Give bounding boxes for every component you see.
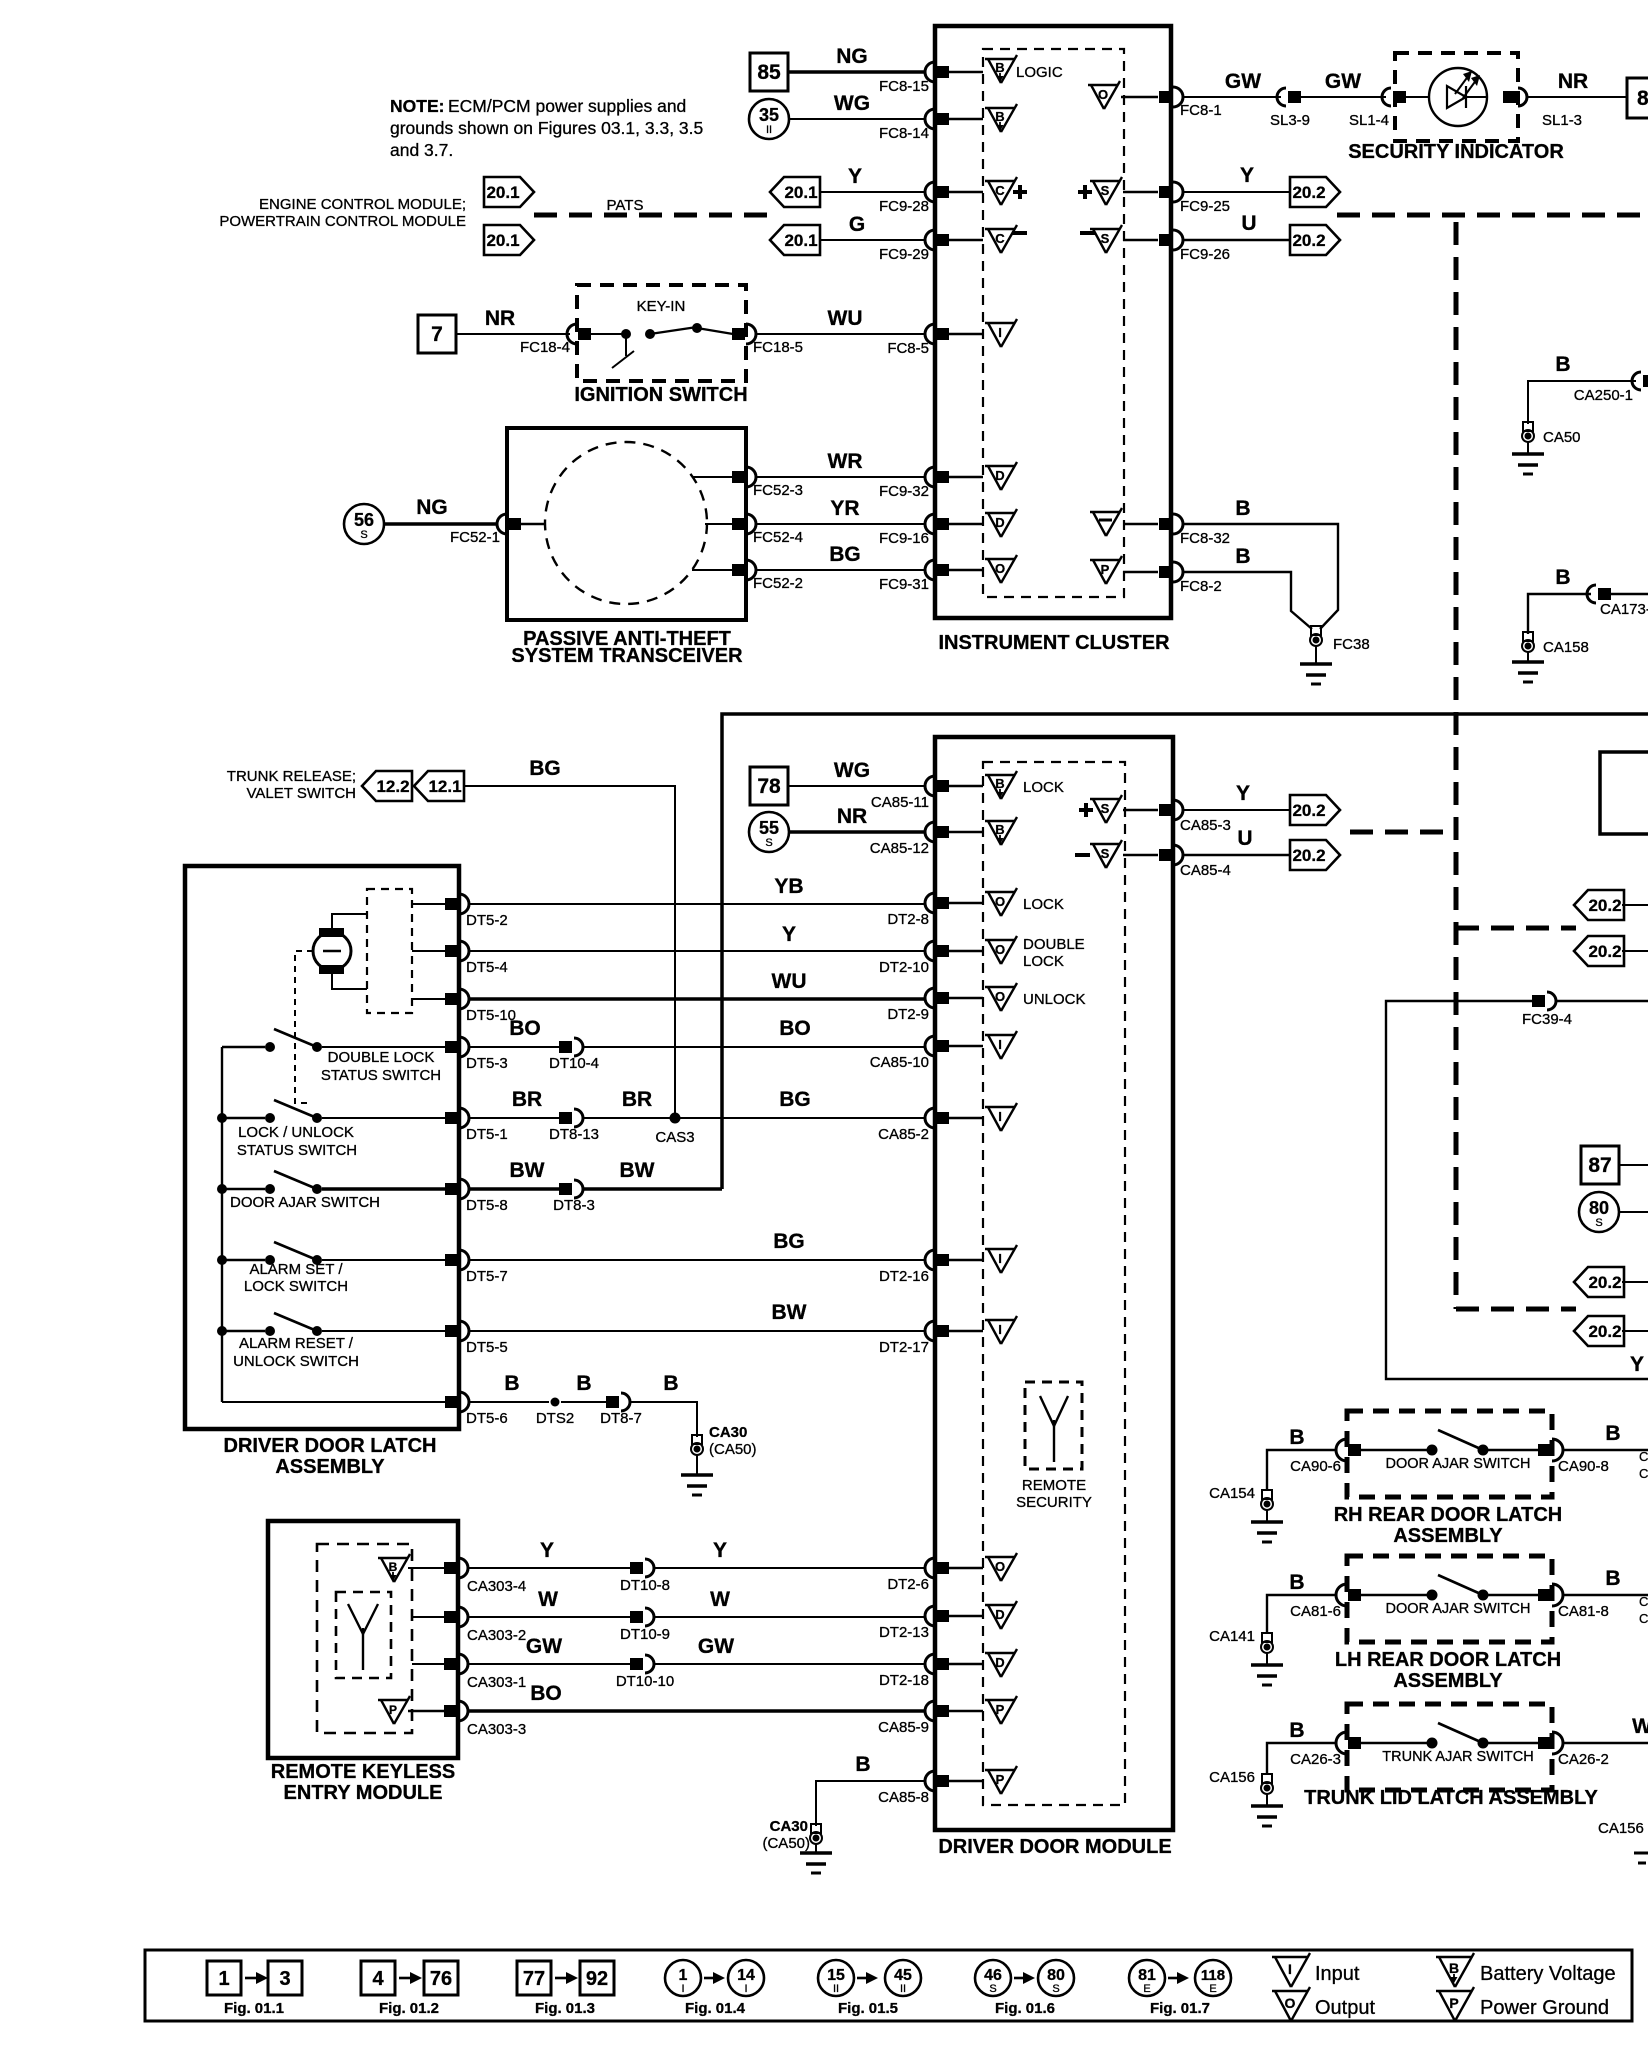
pin FC9-28 — [879, 182, 983, 215]
wire B DT8-7 to CA30 ground — [630, 1372, 697, 1437]
switch DOOR AJAR SWITCH — [1361, 1575, 1538, 1617]
svg-text:C: C — [1639, 1594, 1648, 1609]
label IGNITION SWITCH — [574, 384, 747, 406]
switch TRUNK AJAR SWITCH — [1361, 1723, 1538, 1765]
wire W DT10-9 to DT2-13 — [654, 1588, 926, 1617]
svg-text:CA85-3: CA85-3 — [1180, 817, 1231, 834]
svg-text:CA158: CA158 — [1543, 639, 1589, 656]
svg-text:REMOTE: REMOTE — [1022, 1477, 1086, 1494]
wire BO DT5-3 to DT10-4 — [469, 1017, 560, 1047]
svg-text:Fig. 01.2: Fig. 01.2 — [379, 2000, 439, 2017]
wire BW DT5-8 to DT8-3 — [469, 1159, 560, 1189]
wire WU DT5-10 to DT2-9 — [469, 970, 926, 999]
svg-text:I: I — [998, 325, 1002, 340]
svg-text:S: S — [1101, 183, 1110, 198]
svg-text:P: P — [996, 1702, 1005, 1717]
inline connector DT10-9 — [620, 1608, 670, 1643]
partial connector text at edge (LH) — [1639, 1594, 1648, 1626]
svg-text:DT10-9: DT10-9 — [620, 1626, 670, 1643]
node CAS3 — [655, 1113, 694, 1147]
symbol input triangle (CA85-10) — [985, 1031, 1017, 1059]
svg-text:CA85-8: CA85-8 — [878, 1789, 929, 1806]
svg-text:Y: Y — [848, 165, 862, 188]
svg-text:TRUNK RELEASE;: TRUNK RELEASE; — [227, 768, 356, 785]
DOOR AJAR SWITCH dashed box — [1347, 1556, 1552, 1642]
svg-text:B: B — [1555, 566, 1570, 589]
svg-text:CA85-9: CA85-9 — [878, 1719, 929, 1736]
ground CA141 — [1209, 1628, 1283, 1685]
fig arrow 12.2 — [362, 771, 412, 801]
wire from CA81-8 off page — [1563, 1567, 1648, 1595]
pin CA303-1 — [444, 1654, 526, 1691]
pin DT5-8 — [445, 1179, 508, 1214]
pin FC9-31 — [879, 560, 983, 593]
svg-text:DT2-8: DT2-8 — [887, 911, 929, 928]
dashed branch to bus (lower) — [1456, 1307, 1576, 1312]
wire BW DT8-3 up and across — [583, 1159, 722, 1189]
security indicator dashed box — [1395, 53, 1518, 141]
wire U from CA85-4 to fig 20.2 — [1183, 827, 1290, 855]
svg-text:FC9-29: FC9-29 — [879, 246, 929, 263]
svg-text:W: W — [538, 1588, 558, 1611]
wire YB DT5-2 to DT2-8 — [469, 875, 926, 904]
svg-text:B: B — [576, 1372, 591, 1395]
svg-text:DT2-17: DT2-17 — [879, 1339, 929, 1356]
svg-text:CA85-2: CA85-2 — [878, 1126, 929, 1143]
pin FC8-15 — [879, 62, 983, 95]
svg-text:CA303-1: CA303-1 — [467, 1674, 526, 1691]
symbol battery-voltage triangle (LOGIC) — [985, 55, 1063, 83]
connector box 85 — [750, 53, 788, 91]
svg-text:85: 85 — [1637, 87, 1648, 110]
pin DT5-1 — [445, 1108, 508, 1143]
pin CA85-9 — [878, 1701, 983, 1736]
instrument cluster inner dashed box — [983, 49, 1124, 597]
svg-text:O: O — [995, 989, 1005, 1004]
svg-text:FC38: FC38 — [1333, 636, 1370, 653]
ground CA156 — [1209, 1769, 1283, 1826]
svg-text:I: I — [998, 1322, 1002, 1337]
svg-text:BG: BG — [779, 1088, 811, 1111]
svg-text:B: B — [995, 60, 1004, 75]
svg-text:B: B — [663, 1372, 678, 1395]
svg-text:20.2: 20.2 — [1292, 183, 1325, 202]
svg-text:Fig. 01.5: Fig. 01.5 — [838, 2000, 898, 2017]
ground FC38 — [1300, 626, 1370, 684]
pin SL1-3 — [1503, 88, 1582, 129]
symbol +S triangle CA85-3 — [1079, 795, 1158, 823]
symbol output triangle (DT2-6) — [985, 1553, 1017, 1581]
mechanical link dashed — [295, 951, 313, 1103]
wire YR from FC52-4 to FC9-16 — [756, 497, 926, 524]
connector box 78 — [750, 767, 788, 805]
svg-text:FC9-26: FC9-26 — [1180, 246, 1230, 263]
wire BG valet to CAS3 — [464, 786, 675, 1118]
svg-text:Y: Y — [782, 923, 796, 946]
svg-text:TRUNK AJAR SWITCH: TRUNK AJAR SWITCH — [1382, 1749, 1533, 1765]
transceiver internal wires — [520, 477, 732, 570]
passive anti-theft system transceiver box — [507, 428, 746, 620]
remote keyless entry module box — [268, 1521, 458, 1758]
rke inner dashed box — [317, 1544, 412, 1733]
svg-text:FC39-4: FC39-4 — [1522, 1011, 1572, 1028]
svg-text:46: 46 — [984, 1967, 1002, 1984]
svg-text:SL3-9: SL3-9 — [1270, 112, 1310, 129]
svg-text:D: D — [995, 515, 1004, 530]
svg-text:Fig. 01.4: Fig. 01.4 — [685, 2000, 746, 2017]
pin CA26-2 — [1538, 1732, 1609, 1768]
inline connector DT8-3 — [553, 1180, 595, 1214]
svg-text:DOUBLE LOCK: DOUBLE LOCK — [328, 1049, 435, 1066]
svg-text:CA30: CA30 — [709, 1424, 747, 1441]
wire BW DT5-5 to DT2-17 — [469, 1301, 926, 1331]
svg-text:P: P — [996, 1772, 1005, 1787]
svg-text:O: O — [1098, 87, 1108, 102]
svg-text:B: B — [1449, 1960, 1459, 1976]
legend battery voltage symbol — [1436, 1953, 1616, 1987]
wire B to CA90-6 — [1267, 1426, 1335, 1489]
svg-text:GW: GW — [526, 1635, 562, 1658]
wire BG CAS3 to CA85-2 — [675, 1088, 926, 1118]
wire Y from CA85-3 to fig 20.2 — [1183, 782, 1290, 810]
wire BO DT10-4 to CA85-10 — [583, 1017, 926, 1047]
label INSTRUMENT CLUSTER — [938, 632, 1170, 654]
svg-text:35: 35 — [759, 105, 779, 125]
door ajar switch — [222, 1171, 449, 1211]
svg-text:WG: WG — [834, 759, 870, 782]
partial ground marks at edge — [1634, 1853, 1648, 1863]
wire B from FC8-2 to FC38 — [1183, 545, 1312, 629]
svg-text:78: 78 — [757, 775, 781, 798]
ground CA30 (CA50) — [681, 1424, 757, 1495]
svg-text:and 3.7.: and 3.7. — [390, 140, 453, 160]
svg-text:POWERTRAIN CONTROL MODULE: POWERTRAIN CONTROL MODULE — [219, 213, 466, 230]
inline connector DT10-4 — [549, 1038, 599, 1072]
svg-text:S: S — [1101, 846, 1110, 861]
svg-text:87: 87 — [1588, 1154, 1611, 1177]
svg-text:ASSEMBLY: ASSEMBLY — [275, 1456, 385, 1478]
splice circle 56 (S) — [344, 504, 384, 544]
ground CA50 — [1512, 422, 1581, 474]
symbol output triangle FC8-1 — [1088, 81, 1158, 109]
label CA156 (far right) — [1598, 1820, 1644, 1837]
splice circle 35 (II) — [749, 99, 789, 139]
wire BW door-ajar feed across top — [722, 714, 1648, 1189]
svg-text:O: O — [1285, 1995, 1296, 2011]
pin FC8-2 — [1159, 562, 1222, 595]
svg-text:U: U — [1241, 212, 1256, 235]
fig arrow 20.1 (from ECM upper) — [770, 177, 820, 207]
svg-text:20.2: 20.2 — [1292, 846, 1325, 865]
svg-text:O: O — [995, 1559, 1005, 1574]
svg-text:S: S — [1052, 1983, 1059, 1995]
svg-text:81: 81 — [1138, 1967, 1156, 1984]
svg-text:B: B — [1235, 497, 1250, 520]
svg-text:20.1: 20.1 — [784, 231, 817, 250]
svg-text:118: 118 — [1201, 1967, 1225, 1984]
svg-text:S: S — [1595, 1217, 1602, 1229]
wire GW from SL3-9 to SL1-4 — [1301, 70, 1386, 97]
wire from CA90-8 off page — [1563, 1422, 1648, 1450]
alarm reset / unlock switch — [222, 1313, 449, 1370]
wire from CA26-2 off page — [1563, 1715, 1648, 1743]
driver door module box — [935, 737, 1173, 1830]
svg-text:I: I — [1288, 1961, 1292, 1977]
symbol output triangle DOUBLE LOCK (DT2-10) — [985, 936, 1085, 970]
svg-text:BW: BW — [510, 1159, 545, 1182]
svg-text:S: S — [765, 837, 772, 849]
svg-text:S: S — [360, 529, 367, 541]
remote security antenna dashed box — [1025, 1382, 1082, 1469]
pin FC8-14 — [879, 109, 983, 142]
pin DT5-5 — [445, 1321, 508, 1356]
svg-text:DT2-18: DT2-18 — [879, 1672, 929, 1689]
svg-text:CA303-3: CA303-3 — [467, 1721, 526, 1738]
svg-text:TRUNK LID LATCH ASSEMBLY: TRUNK LID LATCH ASSEMBLY — [1304, 1787, 1598, 1809]
svg-text:SL1-3: SL1-3 — [1542, 112, 1582, 129]
svg-text:BO: BO — [779, 1017, 811, 1040]
svg-text:B: B — [995, 776, 1004, 791]
svg-text:B: B — [1605, 1567, 1620, 1590]
svg-text:FC9-16: FC9-16 — [879, 530, 929, 547]
svg-text:1: 1 — [218, 1968, 229, 1990]
pin DT5-7 — [445, 1250, 508, 1285]
svg-text:FC52-3: FC52-3 — [753, 482, 803, 499]
svg-text:CA26-3: CA26-3 — [1290, 1751, 1341, 1768]
svg-text:C: C — [1639, 1611, 1648, 1626]
pin CA303-2 — [444, 1607, 526, 1644]
svg-text:FC8-14: FC8-14 — [879, 125, 929, 142]
symbol power-ground triangle (CA85-8) — [985, 1766, 1017, 1794]
svg-text:O: O — [995, 942, 1005, 957]
net PATS dashed link (left) — [534, 213, 770, 218]
pin FC8-32 — [1159, 514, 1230, 547]
wire Y from 20.1 to FC9-28 — [820, 165, 926, 192]
svg-text:CA85-12: CA85-12 — [870, 840, 929, 857]
svg-text:ASSEMBLY: ASSEMBLY — [1393, 1525, 1503, 1547]
svg-text:S: S — [1101, 801, 1110, 816]
svg-text:NG: NG — [416, 496, 448, 519]
svg-text:W: W — [1632, 1715, 1648, 1738]
svg-text:BW: BW — [772, 1301, 807, 1324]
svg-text:Y: Y — [1240, 164, 1254, 187]
wire NR from 55 to CA85-12 — [789, 805, 926, 832]
svg-text:55: 55 — [759, 818, 779, 838]
svg-text:SL1-4: SL1-4 — [1349, 112, 1389, 129]
svg-text:Y: Y — [540, 1539, 554, 1562]
pin FC8-1 — [1159, 87, 1222, 119]
wire BR DT5-1 to DT8-13 — [469, 1088, 560, 1118]
svg-text:20.1: 20.1 — [784, 183, 817, 202]
svg-text:WG: WG — [834, 92, 870, 115]
connector box 8x (partial at edge) — [1627, 78, 1648, 118]
label DRIVER DOOR MODULE — [938, 1836, 1171, 1858]
TRUNK AJAR SWITCH dashed box — [1347, 1704, 1552, 1790]
svg-text:DTS2: DTS2 — [536, 1410, 574, 1427]
wire B to CA250-1 — [1528, 353, 1636, 424]
svg-text:4: 4 — [372, 1968, 384, 1990]
svg-text:GW: GW — [1325, 70, 1361, 93]
wire GW CA303-1 to DT10-10 — [468, 1635, 631, 1664]
wire to DT5-4 — [412, 950, 449, 952]
svg-text:IGNITION SWITCH: IGNITION SWITCH — [574, 384, 747, 406]
svg-text:I: I — [998, 1037, 1002, 1052]
wire B from FC8-32 to FC38 — [1183, 497, 1338, 629]
svg-text:LOCK: LOCK — [1023, 779, 1064, 796]
svg-text:B: B — [1605, 1422, 1620, 1445]
svg-text:DT8-3: DT8-3 — [553, 1197, 595, 1214]
svg-text:CA81-6: CA81-6 — [1290, 1603, 1341, 1620]
fig arrow 12.1 — [414, 771, 464, 801]
fig arrow 20.2 (right second) — [1574, 936, 1648, 966]
splice circle 55 (S) — [749, 812, 789, 852]
svg-text:92: 92 — [586, 1968, 608, 1990]
symbol C- triangle — [985, 225, 1027, 253]
svg-text:BG: BG — [773, 1230, 805, 1253]
pin FC18-4 — [520, 324, 591, 356]
svg-text:Output: Output — [1315, 1997, 1375, 2019]
svg-text:I: I — [744, 1983, 747, 1995]
motor wires — [332, 914, 367, 989]
svg-text:NG: NG — [836, 45, 868, 68]
svg-text:I: I — [681, 1983, 684, 1995]
svg-text:DOOR AJAR SWITCH: DOOR AJAR SWITCH — [1385, 1456, 1530, 1472]
svg-text:DT8-13: DT8-13 — [549, 1126, 599, 1143]
symbol +S triangle FC9-25 — [1078, 177, 1158, 205]
fig arrow 20.2 (door U) — [1290, 840, 1340, 870]
note text block — [390, 96, 686, 116]
svg-text:FC52-2: FC52-2 — [753, 575, 803, 592]
label PASSIVE ANTI-THEFT SYSTEM TRANSCEIVER — [511, 628, 743, 667]
pin DT2-9 — [887, 988, 983, 1023]
svg-text:ALARM RESET /: ALARM RESET / — [239, 1335, 354, 1352]
svg-text:CA156: CA156 — [1209, 1769, 1255, 1786]
symbol D triangle FC9-16 — [985, 509, 1017, 537]
dashed link to bus at CA85 rows — [1350, 830, 1456, 835]
wire B to CA26-3 — [1267, 1719, 1335, 1773]
svg-text:UNLOCK: UNLOCK — [1023, 991, 1086, 1008]
wire NR from 7 to FC18-4 — [456, 307, 570, 334]
symbol minus triangle FC8-32 — [1090, 508, 1158, 536]
pin CA85-10 — [870, 1036, 983, 1071]
svg-text:P: P — [1101, 562, 1110, 577]
symbol output triangle LOCK (DT2-8) — [985, 888, 1064, 916]
svg-text:20.2: 20.2 — [1588, 1322, 1621, 1341]
svg-text:85: 85 — [757, 61, 781, 84]
wire Y CA303-4 to DT10-8 — [468, 1539, 631, 1568]
wire GW DT10-10 to DT2-18 — [654, 1635, 926, 1664]
pin FC8-5 — [887, 324, 983, 357]
legend fig 01.7 — [1129, 1960, 1231, 2017]
label TRUNK RELEASE; VALET SWITCH — [227, 768, 356, 802]
svg-text:WU: WU — [772, 970, 807, 993]
legend fig 01.5 — [818, 1960, 921, 2017]
pin DT2-17 — [879, 1321, 983, 1356]
fig arrow 20.2 (Y) — [1290, 177, 1340, 207]
fig arrow 20.2 (right third) — [1574, 1267, 1648, 1297]
splice DTS2 — [536, 1398, 574, 1428]
driver door module inner dashed box — [983, 762, 1125, 1805]
fig arrow 20.1 (from ECM lower) — [770, 225, 820, 255]
legend input symbol — [1272, 1953, 1360, 1987]
wire B to CA81-6 — [1267, 1571, 1335, 1632]
svg-text:CA50: CA50 — [1543, 429, 1581, 446]
svg-text:DT5-2: DT5-2 — [466, 912, 508, 929]
svg-text:CA173-3: CA173-3 — [1600, 601, 1648, 618]
svg-text:20.2: 20.2 — [1588, 896, 1621, 915]
svg-text:LOCK: LOCK — [1023, 953, 1064, 970]
pin CA303-4 — [444, 1558, 526, 1595]
inline connector DT8-7 — [600, 1393, 642, 1427]
svg-text:CA26-2: CA26-2 — [1558, 1751, 1609, 1768]
svg-text:Fig. 01.1: Fig. 01.1 — [224, 2000, 284, 2017]
pin DT2-13 — [879, 1606, 983, 1641]
pin DT2-10 — [879, 941, 983, 976]
partial connector text at edge (RH) — [1639, 1449, 1648, 1481]
junction at alarm set switch — [217, 1255, 227, 1265]
svg-text:FC8-15: FC8-15 — [879, 78, 929, 95]
svg-text:C: C — [1639, 1449, 1648, 1464]
fig arrow 20.2 (right top) — [1574, 890, 1648, 920]
svg-text:CA90-8: CA90-8 — [1558, 1458, 1609, 1475]
svg-text:DT8-7: DT8-7 — [600, 1410, 642, 1427]
splice circle 80 (S) — [1579, 1192, 1648, 1232]
label REMOTE KEYLESS ENTRY MODULE — [271, 1761, 455, 1804]
bus wire to DT5-6 — [222, 1401, 449, 1403]
svg-text:LOGIC: LOGIC — [1016, 64, 1063, 81]
rke antenna — [336, 1592, 391, 1678]
svg-text:CA85-10: CA85-10 — [870, 1054, 929, 1071]
pin CA26-3 — [1290, 1732, 1361, 1768]
pin DT5-3 — [445, 1037, 508, 1072]
svg-text:DT2-13: DT2-13 — [879, 1624, 929, 1641]
svg-text:DT5-5: DT5-5 — [466, 1339, 508, 1356]
label DRIVER DOOR LATCH ASSEMBLY — [224, 1435, 437, 1478]
svg-text:DT2-16: DT2-16 — [879, 1268, 929, 1285]
symbol input triangle (DT2-16) — [985, 1245, 1017, 1273]
svg-text:DOUBLE: DOUBLE — [1023, 936, 1085, 953]
svg-text:E: E — [1143, 1983, 1150, 1995]
pin DT2-8 — [887, 893, 983, 928]
svg-text:BG: BG — [829, 543, 861, 566]
inline connector FC39-4 — [1522, 992, 1648, 1028]
symbol input triangle FC8-5 — [985, 319, 1017, 347]
svg-text:20.2: 20.2 — [1292, 801, 1325, 820]
legend fig 01.3 — [517, 1961, 614, 2017]
svg-text:7: 7 — [431, 323, 443, 346]
legend fig 01.2 — [361, 1961, 458, 2017]
svg-text:LOCK: LOCK — [1023, 896, 1064, 913]
svg-text:20.2: 20.2 — [1588, 942, 1621, 961]
svg-text:B: B — [995, 822, 1004, 837]
label Y (right edge) — [1630, 1353, 1644, 1376]
svg-text:Power Ground: Power Ground — [1480, 1997, 1609, 2019]
svg-text:FC52-1: FC52-1 — [450, 529, 500, 546]
svg-text:D: D — [995, 1607, 1004, 1622]
svg-text:C: C — [995, 183, 1005, 198]
svg-text:B: B — [1289, 1426, 1304, 1449]
pin FC9-32 — [879, 467, 983, 500]
svg-text:FC18-5: FC18-5 — [753, 339, 803, 356]
svg-text:ENTRY MODULE: ENTRY MODULE — [284, 1782, 443, 1804]
svg-text:SYSTEM TRANSCEIVER: SYSTEM TRANSCEIVER — [511, 645, 743, 667]
pin FC9-25 — [1159, 182, 1230, 215]
net PATS dashed link (right) — [1337, 213, 1648, 218]
svg-text:WU: WU — [828, 307, 863, 330]
svg-text:ALARM SET /: ALARM SET / — [249, 1261, 343, 1278]
svg-text:DT2-6: DT2-6 — [887, 1576, 929, 1593]
legend box — [145, 1950, 1632, 2021]
